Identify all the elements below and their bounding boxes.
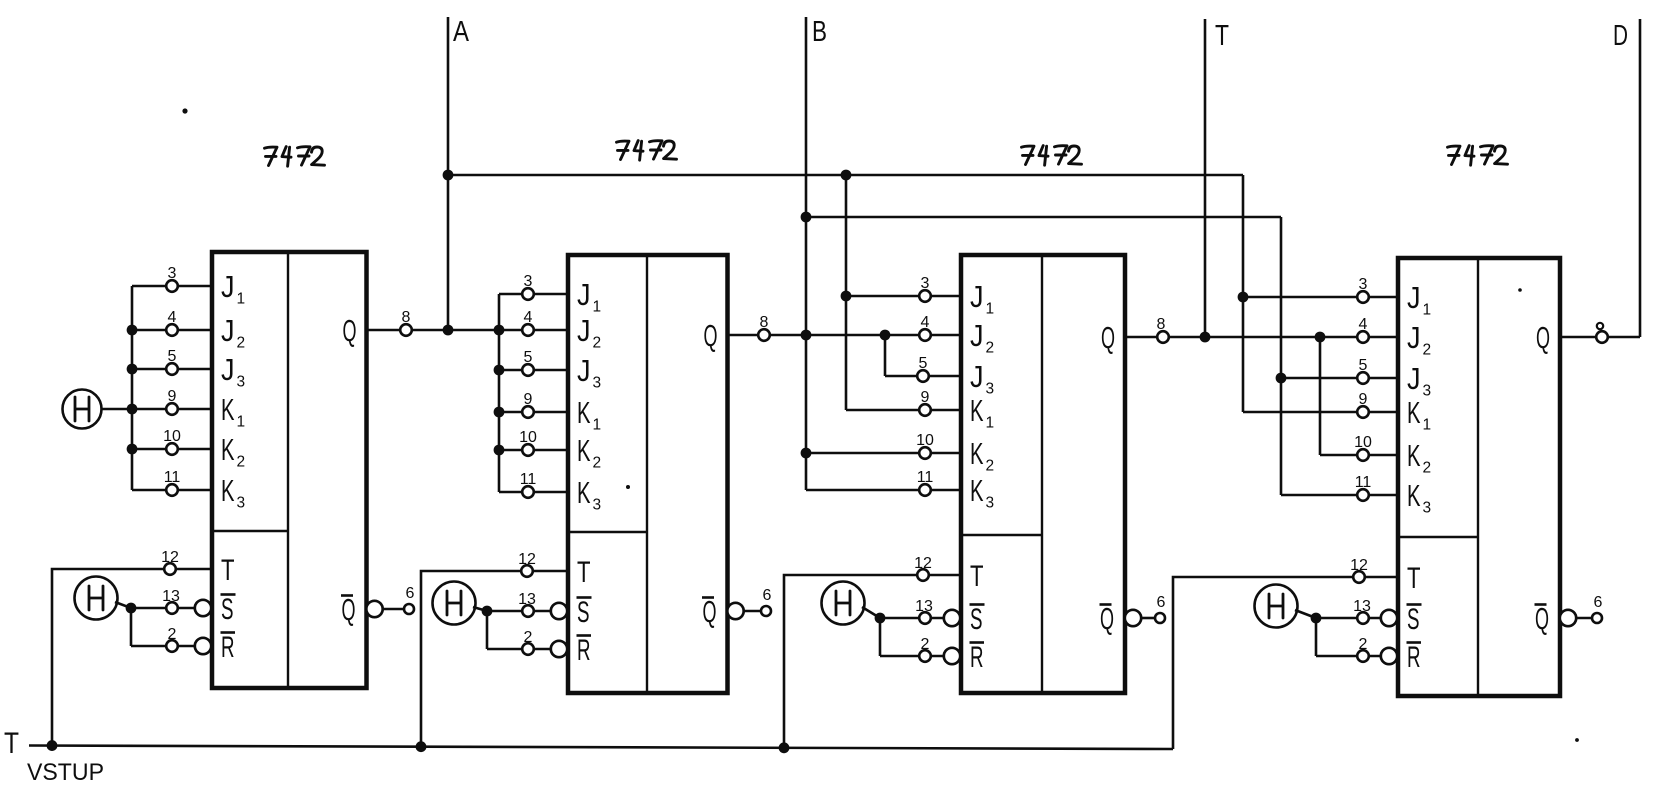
- wire H to U1 bus: [101, 408, 132, 411]
- svg-text:13: 13: [1353, 598, 1371, 615]
- wire U1 K2: [132, 448, 212, 451]
- clock input bus (T VSTUP): [29, 746, 1173, 750]
- wire U1 Q-bar: [382, 608, 404, 611]
- svg-text:2: 2: [1423, 342, 1432, 359]
- junction dot clock bus U3: [779, 742, 790, 753]
- U1 input label K1: [221, 392, 245, 431]
- svg-text:9: 9: [524, 391, 533, 408]
- svg-text:1: 1: [593, 417, 602, 434]
- U3 pin 10 circle: [919, 447, 931, 459]
- U2 input label J1: [577, 277, 601, 316]
- svg-text:11: 11: [520, 471, 537, 488]
- wire U2 K2: [499, 449, 568, 452]
- ink speck: [626, 485, 630, 489]
- svg-text:11: 11: [1355, 474, 1372, 491]
- junction dot U3 J2 branch: [880, 330, 891, 341]
- ink speck: [1518, 288, 1522, 292]
- wire U4 R-bar: [1316, 655, 1382, 658]
- label 7472 (U3): [1022, 146, 1082, 166]
- svg-text:11: 11: [164, 469, 181, 486]
- U4 pin 5 circle: [1357, 372, 1369, 384]
- U1 pin 3 circle: [166, 280, 178, 292]
- svg-text:4: 4: [921, 314, 930, 331]
- label 7472 (U4): [1448, 146, 1508, 166]
- svg-text:2: 2: [921, 636, 930, 653]
- wire U1 K3: [132, 489, 212, 492]
- junction dot x846 on feedback: [841, 170, 852, 181]
- U2 input label K3: [577, 475, 601, 514]
- svg-text:11: 11: [917, 469, 934, 486]
- svg-text:B: B: [812, 16, 827, 48]
- U2 input label S-bar: [577, 596, 592, 629]
- svg-text:T: T: [1407, 562, 1421, 595]
- svg-text:3: 3: [593, 375, 602, 392]
- svg-text:K: K: [970, 473, 984, 508]
- U4 pin 9 circle: [1357, 406, 1369, 418]
- U2 input label J3: [577, 353, 601, 392]
- wire U1 J2: [132, 329, 212, 332]
- label 7472 (U1): [265, 147, 325, 167]
- U4 pin 4 circle: [1357, 331, 1369, 343]
- wire x885 vertical J2->J3 branch: [884, 335, 887, 376]
- logic-high source H (U3 S/R): [822, 582, 865, 625]
- wire H to U2 S-bar: [473, 607, 487, 611]
- logic-high source H (U1 J/K): [63, 390, 102, 429]
- svg-text:T: T: [1215, 20, 1229, 52]
- U4 output label Q-bar: [1535, 601, 1550, 636]
- svg-text:2: 2: [986, 340, 995, 357]
- junction dot U2 bus K1: [494, 407, 505, 418]
- U4 pin 12 circle: [1353, 571, 1365, 583]
- svg-text:13: 13: [915, 598, 933, 615]
- svg-text:R: R: [1407, 641, 1421, 674]
- svg-text:Q: Q: [343, 313, 357, 348]
- wire U4 S/R branch: [1315, 618, 1318, 656]
- U3 S-bar inversion bubble: [944, 610, 960, 626]
- U4 pin 3 circle: [1357, 291, 1369, 303]
- junction dot U2 input bus: [494, 325, 505, 336]
- wire U1 R-bar: [131, 645, 196, 648]
- svg-text:1: 1: [1423, 417, 1432, 434]
- U3 pin 4 circle: [919, 329, 931, 341]
- flip-flop U1 7472 box: [212, 252, 367, 688]
- junction dot U4 K2 branch: [1315, 332, 1326, 343]
- U3 internal horizontal divider (control section): [961, 534, 1042, 537]
- U1 input label K3: [221, 473, 245, 512]
- svg-text:1: 1: [593, 299, 602, 316]
- svg-text:9: 9: [1359, 391, 1368, 408]
- U4 internal vertical divider: [1477, 258, 1479, 696]
- svg-text:2: 2: [593, 455, 602, 472]
- svg-text:10: 10: [163, 428, 181, 445]
- U2 pin 13 circle: [522, 605, 534, 617]
- svg-text:A: A: [453, 16, 470, 48]
- U3 pin 12 circle: [917, 569, 929, 581]
- U3 input label J2: [970, 318, 994, 357]
- wire U4 S-bar: [1316, 617, 1382, 620]
- feedback wire from node B (y=217): [806, 216, 1281, 219]
- wire U3 S-bar: [880, 617, 945, 620]
- U1 internal horizontal divider (control section): [212, 530, 288, 533]
- svg-text:8: 8: [760, 314, 769, 331]
- wire H to U3 S-bar: [862, 607, 880, 618]
- wire U2 S-bar: [487, 610, 552, 613]
- svg-text:K: K: [970, 436, 984, 471]
- U4 Q-bar inversion bubble: [1560, 610, 1576, 626]
- U3 pin 9 circle: [919, 404, 931, 416]
- svg-text:1: 1: [986, 301, 995, 318]
- U4 S-bar inversion bubble: [1381, 610, 1397, 626]
- U1 input bus vertical: [131, 286, 134, 490]
- svg-text:3: 3: [524, 273, 533, 290]
- svg-text:J: J: [221, 269, 235, 304]
- wire U2 Q to U3 J inputs: [728, 334, 962, 337]
- U1 pin 2 circle: [166, 640, 178, 652]
- wire U3 K3: [806, 489, 961, 492]
- svg-text:Q: Q: [704, 318, 718, 353]
- svg-text:J: J: [577, 277, 591, 312]
- svg-text:1: 1: [1423, 302, 1432, 319]
- U2 internal vertical divider: [646, 255, 648, 693]
- net B vertical wire: [805, 17, 808, 490]
- U3 input label S-bar: [970, 603, 985, 636]
- U4 pin 2 circle: [1357, 650, 1369, 662]
- svg-text:VSTUP: VSTUP: [27, 759, 104, 786]
- svg-text:3: 3: [986, 495, 995, 512]
- U3 output label Q-bar: [1100, 601, 1115, 636]
- wire U3 Q to U4 J2: [1125, 336, 1398, 339]
- wire U2 Q-bar: [743, 610, 761, 613]
- U1 pin 11 circle: [166, 484, 178, 496]
- U2 input label R-bar: [577, 634, 592, 667]
- U1 R-bar inversion bubble: [195, 638, 211, 654]
- label 7472 (U2): [617, 141, 677, 161]
- wire x846 vertical to U3 J1/K1: [845, 175, 848, 410]
- junction dot B at U3 K2: [801, 448, 812, 459]
- U4 input label K3: [1407, 478, 1431, 517]
- junction dot T at U3 Q: [1200, 332, 1211, 343]
- U4 pin 10 circle: [1357, 449, 1369, 461]
- wire U2 S/R branch: [486, 611, 489, 649]
- junction dot U3 S/R: [875, 613, 886, 624]
- logic-high source H (U2 S/R): [433, 582, 476, 625]
- svg-text:S: S: [1407, 603, 1420, 636]
- svg-text:J: J: [221, 352, 235, 387]
- svg-text:Q: Q: [1535, 601, 1549, 636]
- U2 pin 5 circle: [522, 364, 534, 376]
- svg-text:1: 1: [986, 415, 995, 432]
- flip-flop U4 7472 box: [1398, 258, 1560, 696]
- U2 pin 4 circle: [522, 324, 534, 336]
- svg-text:Q: Q: [1101, 320, 1115, 355]
- svg-text:J: J: [970, 279, 984, 314]
- U4 input label J3: [1407, 361, 1431, 400]
- wire U1 Q to U2 J inputs: [367, 329, 569, 332]
- svg-text:J: J: [577, 313, 591, 348]
- U3 internal vertical divider: [1041, 255, 1043, 693]
- wire U1 J3: [132, 368, 212, 371]
- svg-text:4: 4: [1359, 316, 1368, 333]
- svg-text:Q: Q: [342, 592, 356, 627]
- flip-flop U2 7472 box: [568, 255, 728, 693]
- net T vertical wire: [1204, 19, 1207, 337]
- junction dot A / feedback: [443, 170, 454, 181]
- wire H to U4 S-bar: [1295, 610, 1316, 618]
- U2 internal horizontal divider (control section): [568, 531, 647, 534]
- U3 pin 11 circle: [919, 484, 931, 496]
- svg-text:8: 8: [402, 309, 411, 326]
- U2 R-bar inversion bubble: [551, 641, 567, 657]
- junction dot U1 bus K1: [127, 404, 138, 415]
- svg-text:K: K: [577, 433, 591, 468]
- svg-text:J: J: [1407, 361, 1421, 396]
- U1 output label Q-bar: [341, 592, 356, 627]
- U2 pin 2 circle: [522, 643, 534, 655]
- wire U4 K3: [1281, 494, 1398, 497]
- logic-high source H (U1 S/R): [75, 577, 118, 620]
- svg-text:3: 3: [921, 275, 930, 292]
- svg-text:9: 9: [168, 388, 177, 405]
- svg-text:6: 6: [406, 585, 415, 602]
- junction dot U1 S/R: [126, 603, 137, 614]
- svg-text:2: 2: [986, 458, 995, 475]
- svg-text:K: K: [221, 392, 235, 427]
- U3 input label J1: [970, 279, 994, 318]
- wire clock to U4 T: [1173, 577, 1398, 749]
- junction dot U4 S/R: [1311, 613, 1322, 624]
- svg-text:J: J: [577, 353, 591, 388]
- U3 input label J3: [970, 359, 994, 398]
- wire x1281 vertical to U4 J3/K3: [1280, 217, 1283, 495]
- U4 input label S-bar: [1407, 603, 1422, 636]
- svg-text:R: R: [577, 634, 591, 667]
- svg-text:S: S: [970, 603, 983, 636]
- U2 S-bar inversion bubble: [551, 603, 567, 619]
- U2 input label K1: [577, 395, 601, 434]
- svg-text:S: S: [577, 596, 590, 629]
- svg-text:12: 12: [161, 549, 179, 566]
- svg-text:3: 3: [168, 265, 177, 282]
- svg-text:2: 2: [524, 629, 533, 646]
- wire x1243 vertical to U4 J1/K1: [1242, 175, 1245, 412]
- junction dot U3 J1: [841, 291, 852, 302]
- junction dot B at U3 J2 row: [801, 330, 812, 341]
- svg-text:5: 5: [168, 348, 177, 365]
- feedback wire from node A (y=175): [448, 174, 1243, 177]
- U2 pin 11 circle: [522, 486, 534, 498]
- U1 pin 5 circle: [166, 363, 178, 375]
- U4 input label K1: [1407, 395, 1431, 434]
- svg-text:K: K: [577, 395, 591, 430]
- svg-text:2: 2: [168, 626, 177, 643]
- U4 R-bar inversion bubble: [1381, 648, 1397, 664]
- wire U3 Q-bar: [1141, 617, 1155, 620]
- wire U4 K2 branch vertical: [1319, 337, 1322, 455]
- svg-text:Q: Q: [1536, 320, 1550, 355]
- wire U4 J3: [1281, 377, 1398, 380]
- U4 input label J1: [1407, 280, 1431, 319]
- svg-text:3: 3: [593, 497, 602, 514]
- junction dot U2 bus J3: [494, 365, 505, 376]
- U1 internal vertical divider: [287, 252, 289, 688]
- svg-text:K: K: [1407, 438, 1421, 473]
- svg-text:2: 2: [237, 454, 246, 471]
- net A vertical wire: [447, 17, 450, 330]
- svg-text:Q: Q: [703, 594, 717, 629]
- U3 input label K2: [970, 436, 994, 475]
- U1 input label S-bar: [221, 593, 236, 626]
- svg-text:5: 5: [1359, 357, 1368, 374]
- U4 input label R-bar: [1407, 641, 1422, 674]
- svg-text:Q: Q: [1100, 601, 1114, 636]
- U3 pin 8 circle: [1157, 331, 1169, 343]
- wire U4 Q-bar: [1576, 617, 1592, 620]
- U4 pin 6 circle: [1592, 613, 1602, 623]
- svg-text:K: K: [1407, 478, 1421, 513]
- svg-text:8: 8: [1157, 316, 1166, 333]
- svg-text:3: 3: [1423, 383, 1432, 400]
- U3 input label R-bar: [970, 641, 985, 674]
- svg-text:J: J: [1407, 320, 1421, 355]
- U4 pin 8 circle: [1596, 331, 1608, 343]
- U2 Q-bar inversion bubble: [727, 603, 743, 619]
- U1 pin 8 circle: [400, 324, 412, 336]
- U4 pin 8 mark: [1597, 323, 1603, 329]
- U1 pin 13 circle: [166, 602, 178, 614]
- svg-text:3: 3: [986, 381, 995, 398]
- wire U3 J3: [885, 375, 961, 378]
- svg-text:1: 1: [237, 414, 246, 431]
- wire U1 J1: [132, 285, 212, 288]
- svg-text:D: D: [1613, 20, 1628, 52]
- junction dot clock bus U2: [416, 741, 427, 752]
- U2 pin 6 circle: [761, 606, 771, 616]
- U1 input label J3: [221, 352, 245, 391]
- svg-text:10: 10: [1354, 434, 1372, 451]
- svg-text:1: 1: [237, 291, 246, 308]
- U3 input label K1: [970, 393, 994, 432]
- wire clock to U1 T: [52, 569, 212, 746]
- U2 input bus vertical: [498, 294, 501, 492]
- U2 pin 10 circle: [522, 444, 534, 456]
- svg-text:3: 3: [237, 374, 246, 391]
- wire H to U1 S-bar: [115, 602, 131, 608]
- ink speck: [182, 108, 187, 113]
- svg-text:K: K: [970, 393, 984, 428]
- U3 pin 2 circle: [919, 650, 931, 662]
- svg-text:K: K: [577, 475, 591, 510]
- svg-text:2: 2: [593, 335, 602, 352]
- wire U2 R-bar: [487, 648, 552, 651]
- svg-text:K: K: [221, 473, 235, 508]
- U1 pin 9 circle: [166, 403, 178, 415]
- svg-text:6: 6: [1594, 594, 1603, 611]
- junction dot U2 bus K2: [494, 445, 505, 456]
- svg-text:J: J: [1407, 280, 1421, 315]
- svg-text:4: 4: [524, 309, 533, 326]
- svg-text:10: 10: [519, 429, 537, 446]
- wire U4 Q to node D: [1560, 336, 1640, 339]
- U3 Q-bar inversion bubble: [1125, 610, 1141, 626]
- U1 input label R-bar: [221, 631, 236, 664]
- U1 input label J1: [221, 269, 245, 308]
- svg-text:12: 12: [1350, 557, 1368, 574]
- U3 pin 5 circle: [917, 370, 929, 382]
- svg-text:6: 6: [763, 587, 772, 604]
- svg-text:13: 13: [518, 591, 536, 608]
- wire U1 S/R branch: [130, 608, 133, 646]
- svg-text:R: R: [221, 631, 235, 664]
- svg-text:K: K: [1407, 395, 1421, 430]
- logic-high source H (U4 S/R): [1255, 585, 1298, 628]
- wire U4 K1: [1243, 411, 1398, 414]
- flip-flop U3 7472 box: [961, 255, 1125, 693]
- U1 pin 6 circle: [404, 604, 414, 614]
- junction dot A at U1 Q: [443, 325, 454, 336]
- wire U3 R-bar: [880, 655, 945, 658]
- wire U4 K2: [1320, 454, 1398, 457]
- junction dot U1 bus J3: [127, 364, 138, 375]
- U2 pin 3 circle: [522, 288, 534, 300]
- wire U2 J3: [499, 369, 568, 372]
- U3 pin 13 circle: [919, 612, 931, 624]
- U1 pin 12 circle: [164, 563, 176, 575]
- wire clock to U3 T: [784, 575, 961, 748]
- wire U3 K2: [806, 452, 961, 455]
- U2 output label Q-bar: [702, 594, 717, 629]
- svg-text:3: 3: [237, 495, 246, 512]
- junction dot U1 bus K2: [127, 444, 138, 455]
- svg-text:J: J: [970, 318, 984, 353]
- svg-text:4: 4: [168, 309, 177, 326]
- U2 input label J2: [577, 313, 601, 352]
- net D vertical wire: [1639, 19, 1642, 337]
- svg-text:2: 2: [237, 335, 246, 352]
- wire U3 K1: [846, 409, 961, 412]
- U2 pin 9 circle: [522, 406, 534, 418]
- svg-text:10: 10: [916, 432, 934, 449]
- junction dot U1 bus J2: [127, 325, 138, 336]
- wire U2 K1: [499, 411, 568, 414]
- U3 input label K3: [970, 473, 994, 512]
- wire U3 J1: [846, 295, 961, 298]
- U2 pin 8 circle: [758, 329, 770, 341]
- junction dot U4 J3: [1276, 373, 1287, 384]
- svg-text:5: 5: [919, 355, 928, 372]
- svg-text:2: 2: [1359, 636, 1368, 653]
- junction dot U2 S/R: [482, 606, 493, 617]
- junction dot U4 J1: [1238, 292, 1249, 303]
- wire clock to U2 T: [421, 571, 568, 747]
- svg-text:6: 6: [1157, 594, 1166, 611]
- U1 input label K2: [221, 432, 245, 471]
- U4 pin 11 circle: [1357, 489, 1369, 501]
- wire U4 J1: [1243, 296, 1398, 299]
- ink speck: [1575, 738, 1579, 742]
- U3 pin 6 circle: [1155, 613, 1165, 623]
- svg-text:J: J: [221, 313, 235, 348]
- U4 internal horizontal divider (control section): [1398, 536, 1478, 539]
- svg-text:T: T: [4, 727, 19, 760]
- svg-text:K: K: [221, 432, 235, 467]
- U4 pin 13 circle: [1357, 612, 1369, 624]
- U1 S-bar inversion bubble: [195, 600, 211, 616]
- U2 input label K2: [577, 433, 601, 472]
- wire U3 S/R branch: [879, 618, 882, 656]
- svg-text:9: 9: [921, 389, 930, 406]
- svg-text:12: 12: [914, 555, 932, 572]
- svg-text:T: T: [221, 554, 235, 587]
